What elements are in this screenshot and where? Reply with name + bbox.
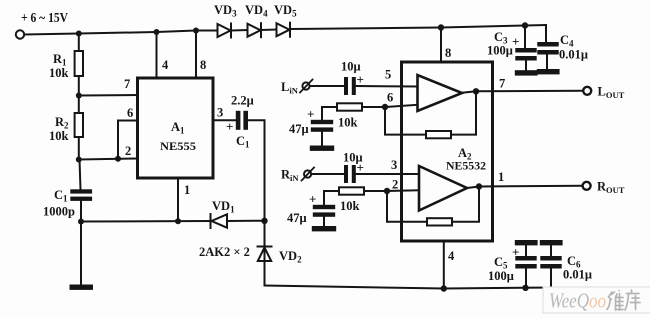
svg-text:+: + <box>226 119 233 134</box>
wire pin 6 bracket <box>118 121 138 159</box>
label Rin <box>281 168 299 184</box>
pin number 8 <box>200 58 206 72</box>
pin number 2 A2 <box>392 178 398 192</box>
label 2.2u <box>231 94 254 108</box>
pin number 6 <box>127 106 133 120</box>
node junction R1/top rail <box>76 31 82 37</box>
diode VD3 <box>218 24 232 38</box>
svg-text:6: 6 <box>127 106 133 120</box>
label 10u left <box>341 60 361 74</box>
node junction pin6 net <box>382 104 388 110</box>
wire pin 2 A2 <box>387 189 419 192</box>
wire feedback lower right <box>452 187 479 222</box>
diode VD4 <box>248 23 262 37</box>
svg-text:2: 2 <box>392 178 398 192</box>
capacitor C1 2.2u <box>236 111 248 130</box>
label plus 47u upper <box>307 107 314 122</box>
label A2 <box>458 146 472 162</box>
capacitor 47u lower <box>313 205 335 226</box>
svg-text:+: + <box>512 34 519 49</box>
wire 10k to 47u lower <box>324 191 339 205</box>
ground C5 <box>515 240 538 245</box>
wire pin 4 <box>156 32 158 78</box>
wire pin 5 <box>356 85 418 88</box>
svg-text:2.2μ: 2.2μ <box>231 94 254 108</box>
label C6 value <box>563 268 592 282</box>
node junction pin4 A2 rail <box>441 285 447 291</box>
svg-text:10k: 10k <box>340 199 360 213</box>
wire pin 1 <box>177 178 179 221</box>
svg-text:8: 8 <box>200 58 206 72</box>
node junction R2/pin2 <box>76 157 82 163</box>
svg-text:2AK2 × 2: 2AK2 × 2 <box>199 245 250 259</box>
label plus 10u right <box>357 160 364 175</box>
svg-text:10k: 10k <box>49 66 69 80</box>
label Lout <box>598 85 625 101</box>
label R2 value 10k <box>49 129 69 143</box>
node junction pin4 rail <box>154 29 160 35</box>
label VD5 <box>274 3 297 19</box>
resistor R1 <box>75 34 83 96</box>
pin number 1 A2 <box>498 170 504 184</box>
watermark WeeQoo <box>543 287 650 313</box>
label VD3 <box>214 3 237 19</box>
pin number 1 <box>184 183 190 197</box>
label C1b <box>236 134 250 150</box>
resistor 10k upper <box>337 103 362 110</box>
node junction pin8 A2 rail <box>438 24 444 30</box>
node junction pin6/pin2 <box>115 156 121 162</box>
label plus 47u lower <box>309 192 316 207</box>
svg-text:+: + <box>357 160 364 175</box>
capacitor C4 <box>537 25 558 69</box>
label NE555 <box>160 139 196 153</box>
wire pin 7 <box>79 94 138 97</box>
svg-text:0.01μ: 0.01μ <box>563 268 592 282</box>
label C1 <box>54 188 68 204</box>
wire top rail <box>24 31 217 35</box>
capacitor 10u right <box>344 165 356 183</box>
pin number 8 A2 <box>445 46 451 60</box>
wire pin 3 A2 <box>356 173 419 175</box>
label NE5532 <box>446 159 486 173</box>
label C5 <box>494 255 508 271</box>
capacitor C5 <box>515 245 536 287</box>
pin number 7 <box>124 77 130 91</box>
node junction C1 bottom <box>78 219 84 225</box>
wire pin 6 <box>385 105 418 107</box>
diode VD1 <box>211 214 265 228</box>
ground 47u upper <box>310 146 334 151</box>
label Rout <box>597 180 625 196</box>
label 10k lower <box>340 199 360 213</box>
wire C1 output <box>248 120 265 221</box>
pin number 5 <box>385 68 391 82</box>
svg-text:+ 6 ~ 15V: + 6 ~ 15V <box>21 10 68 25</box>
svg-text:3: 3 <box>217 106 223 120</box>
svg-text:7: 7 <box>499 77 505 91</box>
label C4 <box>560 33 574 49</box>
wire pin 3 <box>213 119 236 121</box>
svg-text:7: 7 <box>124 77 130 91</box>
wire to ground <box>80 222 82 285</box>
label C3 <box>494 30 508 46</box>
label C3 value <box>487 44 513 58</box>
label 10u right <box>343 151 363 165</box>
svg-text:+: + <box>307 107 314 122</box>
label A1 <box>171 120 185 136</box>
wire output A2a <box>462 91 583 93</box>
svg-text:47μ: 47μ <box>287 211 307 225</box>
pin number 6 <box>387 91 393 105</box>
node junction pin1 <box>175 218 181 224</box>
resistor feedback lower <box>427 218 452 225</box>
label 2AK2 x 2 <box>199 245 250 259</box>
ground C6 <box>540 240 563 245</box>
op-amp A2b triangle <box>419 166 467 211</box>
wire output A2b <box>467 186 582 188</box>
ground 47u lower <box>312 226 336 231</box>
wire 10k to 47u <box>322 107 337 120</box>
svg-text:1: 1 <box>184 183 190 197</box>
node junction pin8 rail <box>193 28 199 34</box>
wire Rin to cap <box>311 173 344 175</box>
label C5 value <box>488 269 514 283</box>
pin number 3 A2 <box>391 158 397 172</box>
node junction VD1/VD2 <box>261 218 267 224</box>
wire 10k left upper <box>362 106 385 108</box>
svg-text:3: 3 <box>391 158 397 172</box>
op-amp U1 timer A1 NE555 box <box>138 78 214 178</box>
diode VD2 <box>258 221 272 286</box>
wire pin 8 <box>195 31 197 79</box>
label C4 value <box>559 48 588 62</box>
wire top rail after VD5 <box>291 25 546 29</box>
label +6~15V <box>21 10 68 25</box>
label R2 <box>55 115 69 131</box>
svg-text:WeeQoo: WeeQoo <box>549 289 606 313</box>
label R1 value 10k <box>49 66 69 80</box>
op-amp A2 NE5532 box <box>402 62 493 241</box>
svg-text:+: + <box>309 192 316 207</box>
wire pin 4 A2 <box>443 241 445 289</box>
node junction output A2a <box>473 88 479 94</box>
svg-text:5: 5 <box>385 68 391 82</box>
label VD4 <box>245 3 268 19</box>
resistor feedback upper <box>426 131 451 138</box>
pin number 2 <box>125 144 131 158</box>
wire bottom-left net <box>81 220 210 223</box>
svg-text:2: 2 <box>125 144 131 158</box>
wire 10k left lower <box>364 190 387 192</box>
svg-text:100μ: 100μ <box>488 269 514 283</box>
label plus C5 <box>512 245 519 260</box>
label Lin <box>281 80 299 96</box>
svg-text:47μ: 47μ <box>289 122 309 136</box>
input terminal Rin <box>302 168 314 181</box>
input terminal Lin <box>300 80 313 93</box>
svg-text:1000p: 1000p <box>43 205 75 219</box>
capacitor C1 1000p <box>70 160 92 222</box>
label C6 <box>567 254 581 270</box>
node junction pin2 net <box>384 188 390 194</box>
resistor 10k lower <box>339 187 364 194</box>
node junction output A2b <box>476 183 482 189</box>
svg-text:+: + <box>512 245 519 260</box>
svg-text:0.01μ: 0.01μ <box>559 48 588 62</box>
capacitor C3 <box>515 26 536 71</box>
wire feedback lower <box>387 191 427 222</box>
ground C3 <box>515 70 538 75</box>
ground C4 <box>537 69 560 74</box>
ground <box>70 285 94 290</box>
output terminal Lout <box>583 87 591 95</box>
output terminal Rout <box>583 182 591 190</box>
wire feedback upper right <box>451 91 476 134</box>
svg-text:8: 8 <box>445 46 451 60</box>
svg-text:10k: 10k <box>49 129 69 143</box>
pin number 3 <box>217 106 223 120</box>
label 47u upper <box>289 122 309 136</box>
node junction C5 rail <box>522 285 528 291</box>
node junction R1/R2/pin7 <box>76 93 82 99</box>
label C1 value 1000p <box>43 205 75 219</box>
label plus 10u left <box>357 72 364 87</box>
resistor R2 <box>75 96 83 160</box>
label VD2 <box>279 249 302 265</box>
wire feedback upper <box>385 107 426 135</box>
diode VD5 <box>277 23 291 37</box>
svg-text:NE5532: NE5532 <box>446 159 486 173</box>
power input terminal <box>16 30 24 38</box>
pin number 7 A2 <box>499 77 505 91</box>
svg-text:10k: 10k <box>338 116 358 130</box>
capacitor 10u left <box>344 77 356 95</box>
capacitor C6 <box>540 245 561 287</box>
label 47u lower <box>287 211 307 225</box>
label plus C3 <box>512 34 519 49</box>
wire Lin to cap <box>310 85 344 87</box>
wire VD4-VD5 link <box>262 29 277 32</box>
node junction C3 rail <box>522 22 528 28</box>
op-amp A2a triangle <box>418 75 463 111</box>
wire pin 8 A2 <box>440 28 442 63</box>
wire pin 2 <box>79 159 138 160</box>
svg-text:4: 4 <box>162 58 169 72</box>
wire bottom rail <box>265 286 552 289</box>
svg-text:6: 6 <box>387 91 393 105</box>
label R1 <box>53 52 67 68</box>
svg-text:100μ: 100μ <box>487 44 513 58</box>
capacitor 47u upper <box>311 120 333 146</box>
svg-text:4: 4 <box>448 249 455 263</box>
svg-text:NE555: NE555 <box>160 139 196 153</box>
wire VD3-VD4 link <box>232 29 248 32</box>
label plus C1 <box>226 119 233 134</box>
svg-text:1: 1 <box>498 170 504 184</box>
label 10k upper <box>338 116 358 130</box>
pin number 4 <box>162 58 169 72</box>
pin number 4 A2 <box>448 249 455 263</box>
svg-text:+: + <box>357 72 364 87</box>
label VD1 <box>212 199 235 215</box>
